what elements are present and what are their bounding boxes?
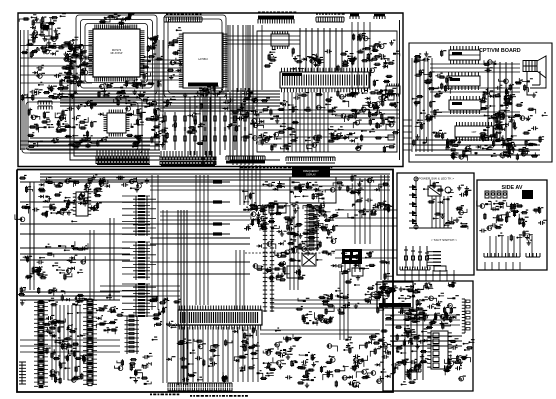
speaker horn symbol <box>532 56 546 85</box>
bottom connector comb <box>168 383 232 393</box>
svg-text:SIDE AV: SIDE AV <box>502 185 523 191</box>
regulator cluster in sub-box <box>377 286 416 306</box>
small comb bottom-left <box>19 362 26 384</box>
power box left cluster <box>396 328 431 385</box>
side AV board outline <box>477 180 547 270</box>
cluster top right of IF box <box>347 33 400 69</box>
cluster mid-board2 <box>259 116 299 152</box>
dark component box (SAW filter) <box>342 249 363 276</box>
SIDE AV title <box>502 185 523 191</box>
crystal X1 and caps above U1 <box>99 13 135 28</box>
wires power sw to bottom <box>405 270 454 281</box>
bottom board long horizontal wires <box>20 174 390 352</box>
svg-text:FREQUENCY: FREQUENCY <box>303 170 319 173</box>
connector P6 small <box>374 14 385 19</box>
power cluster C <box>443 338 474 381</box>
board-bottom connector comb D <box>286 157 335 163</box>
wires between shields <box>228 25 253 92</box>
cluster below U3 <box>261 89 379 120</box>
cluster above U3 <box>264 45 390 72</box>
FREQUENCY DISPLAY label box <box>292 167 330 177</box>
display sub-box <box>290 177 336 203</box>
parts right edge <box>385 95 394 140</box>
power cluster B <box>408 296 460 330</box>
CPT center cluster <box>483 93 517 137</box>
CPT/VM board outline <box>409 43 552 162</box>
cluster above ladders <box>18 287 85 306</box>
bus wires to power box <box>335 210 397 258</box>
power box internal wires <box>409 196 452 228</box>
connector P3 header <box>258 12 296 24</box>
cluster below shield U1 <box>86 93 150 106</box>
svg-text:< TACT SWITCH >: < TACT SWITCH > <box>431 238 457 242</box>
CPT internal v-bus <box>412 58 432 152</box>
power box top cluster <box>398 281 459 326</box>
CPT cluster mid <box>504 78 538 114</box>
power switch cluster <box>423 180 471 230</box>
resistor ladder RN1 (3 segments) <box>122 195 156 317</box>
jungle IC U6 (SDIP) <box>178 306 262 330</box>
cluster right of U6 area <box>349 333 386 387</box>
cluster right of U3 <box>363 54 397 115</box>
power cluster A <box>381 312 430 380</box>
vertical wires above U3 <box>300 28 342 72</box>
wires sideav to bottom <box>485 262 520 270</box>
cluster below U2 <box>183 84 227 99</box>
vertical wires below U6 <box>183 327 258 382</box>
AGC cluster <box>32 60 92 79</box>
arrow marks under comb <box>169 390 227 392</box>
CRT neck grid <box>523 61 537 72</box>
power box wire web <box>390 310 462 380</box>
tuner input cluster <box>19 13 66 45</box>
ferrite beads on wires <box>213 180 222 235</box>
CPT wires center <box>488 62 512 140</box>
main board vertical bus wires <box>21 22 371 165</box>
inner border wire right edge <box>399 20 401 160</box>
CPT cluster bottom strip <box>447 139 539 160</box>
component column array below U2 <box>160 108 255 150</box>
cluster right of drivers <box>479 60 514 142</box>
svg-text:MF-XXXSP: MF-XXXSP <box>111 53 123 55</box>
cluster below CRT socket <box>446 135 515 161</box>
cluster between ladders <box>50 312 87 383</box>
cluster below display <box>285 201 338 248</box>
resistor ladder RN2 <box>125 315 140 354</box>
board-bottom connector comb A <box>96 150 150 165</box>
svg-text:CRT: CRT <box>472 131 477 134</box>
CPT wires bottom <box>415 140 540 155</box>
cluster bottom of IF box <box>257 123 382 150</box>
power switch & LED board outline <box>397 173 474 275</box>
left lower cluster <box>21 78 82 101</box>
main board horizontal bus wires <box>20 36 400 149</box>
dense ladder RN3 <box>305 206 320 251</box>
center-right cluster A <box>242 181 290 231</box>
svg-text:< POWER S/W & LED TK >: < POWER S/W & LED TK > <box>416 177 454 181</box>
sound IF IC U3 (SDIP) <box>280 68 369 92</box>
connector P2 above U2 <box>164 14 202 23</box>
display cluster <box>290 181 335 202</box>
vertical ladder center <box>263 206 274 312</box>
decoupling cluster left of U1 <box>57 37 87 90</box>
TACT SWITCH label <box>431 238 457 242</box>
right pin column <box>462 299 470 333</box>
cluster far right top <box>333 175 392 220</box>
bottom-right power board outline <box>383 281 473 391</box>
small comb bottom right <box>405 369 421 372</box>
microcontroller U1 (QFP) <box>89 25 145 82</box>
center-right cluster B <box>275 207 335 279</box>
cluster around CRT drivers <box>412 50 453 146</box>
decoupling cluster right of U1 <box>142 35 163 87</box>
CRT socket connector <box>455 122 493 141</box>
board-bottom connector comb C <box>226 156 265 164</box>
wire loops top board <box>70 25 280 160</box>
wire links main->CPT <box>403 120 412 150</box>
bottom text annotation left <box>150 394 179 396</box>
pin column ladder B (connector) <box>83 299 97 386</box>
cluster left of U6 <box>147 296 181 341</box>
IF box lower horizontal wires <box>258 118 395 144</box>
cluster bottom-center-right <box>285 334 360 388</box>
frame wires <box>30 182 110 300</box>
vertical wire bus below U3 <box>284 92 328 152</box>
cluster right edge of board <box>338 89 399 153</box>
cluster right of ladder B <box>96 295 124 335</box>
shield box around U5 <box>22 98 142 153</box>
cluster below U6 left <box>166 339 232 384</box>
AV jack cluster <box>477 200 516 241</box>
audio IC vertical <box>427 331 452 369</box>
dashed line <box>245 252 335 254</box>
AV wires <box>490 236 532 257</box>
left h wires mid <box>20 248 130 260</box>
wires lower mid board <box>30 138 160 153</box>
connector P5 small <box>350 14 359 20</box>
vertical bundle below U2 <box>185 97 220 155</box>
sub-box regulator <box>377 282 413 308</box>
audio cluster left <box>23 241 88 280</box>
svg-text:CPT/VM BOARD: CPT/VM BOARD <box>479 48 521 54</box>
decoupling cluster below U1 <box>98 79 146 98</box>
tact labels block <box>427 251 441 266</box>
top strip small parts <box>98 176 149 192</box>
cluster left in U5 box <box>27 108 59 148</box>
CPT internal h-bus <box>430 64 520 116</box>
cluster below ladder <box>114 353 152 385</box>
svg-text:M37272: M37272 <box>112 48 122 52</box>
AV transistor cluster <box>512 203 547 245</box>
sub-box IF/chroma section <box>257 31 397 152</box>
video out cluster <box>15 174 105 222</box>
pin column ladder A (connector) <box>34 301 48 388</box>
tact bottom pin row <box>400 266 446 271</box>
LED column <box>409 177 418 229</box>
CRT driver IC U103 <box>449 96 481 114</box>
wires below speaker <box>527 71 546 95</box>
video processor U2 (vertical) <box>179 33 227 88</box>
CRT driver IC U102 <box>447 72 480 90</box>
wires bottom box top links <box>240 165 260 171</box>
bottom-left v wires <box>52 305 80 380</box>
IF transformer T1 <box>41 23 52 36</box>
bottom board long vertical wires <box>30 171 370 383</box>
IF cluster rows <box>21 39 92 63</box>
cluster left inside shield U2 <box>167 27 183 80</box>
component box pair <box>269 203 316 278</box>
bus wires right side <box>381 175 388 280</box>
main board outline (top-left) <box>18 13 403 167</box>
AV jack row <box>485 190 533 199</box>
sync/deflection IC U5 (QFP) <box>104 110 130 137</box>
power box h wires <box>385 315 460 325</box>
vertical reg IC <box>73 192 91 216</box>
IC U4 (14-pin DIP) <box>271 31 289 49</box>
cluster around center ladder <box>253 241 302 282</box>
bottom board outline <box>17 170 393 393</box>
cluster above U6 right <box>296 293 345 326</box>
AV bottom pin row <box>484 253 540 257</box>
cluster around U5 <box>55 103 108 148</box>
svg-text:DISPLAY: DISPLAY <box>306 173 316 176</box>
tact switch columns <box>404 246 429 268</box>
cluster mid-board <box>223 88 264 140</box>
cluster between U1 and U2 shields <box>147 96 206 147</box>
labels above bottom border <box>240 167 332 169</box>
connector comb in U5 box <box>38 101 52 110</box>
power switch relay <box>428 186 451 196</box>
cluster right-mid <box>331 251 393 314</box>
board-bottom connector comb B <box>160 151 216 166</box>
bottom-left h wires <box>20 292 120 300</box>
cluster below-right of U6 <box>232 327 291 380</box>
svg-text:LA76810: LA76810 <box>198 58 208 61</box>
CPT cluster bottom <box>494 112 547 156</box>
bottom-left wiring cluster <box>43 298 87 384</box>
center long wire pairs <box>150 210 250 385</box>
cluster right of U5 <box>125 102 163 148</box>
CPT/VM BOARD title <box>479 48 521 54</box>
connector P4 header <box>316 13 345 22</box>
shield box around U1 (nested) <box>76 15 157 94</box>
shield box around U2 <box>164 15 226 97</box>
power board title <box>416 177 454 181</box>
CRT driver IC U101 <box>449 46 480 64</box>
small DIP right edge <box>386 84 400 97</box>
bottom text annotation center <box>190 395 248 397</box>
